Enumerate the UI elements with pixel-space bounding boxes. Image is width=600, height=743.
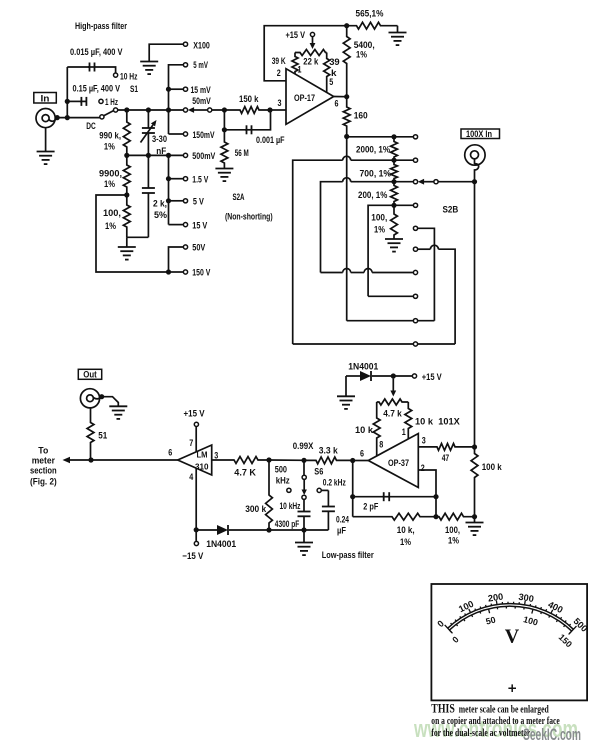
arrow wiper to 4.7k pot bbox=[392, 379, 394, 391]
svg-text:1%: 1% bbox=[104, 179, 115, 190]
wire S2B row8 bbox=[368, 295, 413, 297]
op-amp U2 LM310 bbox=[178, 445, 212, 475]
svg-text:5 V: 5 V bbox=[193, 197, 205, 208]
switch S2B contact 7 bbox=[413, 270, 417, 274]
svg-text:990 k,: 990 k, bbox=[99, 131, 121, 142]
meter outer scale ticks bbox=[445, 601, 577, 634]
svg-text:S1: S1 bbox=[130, 84, 138, 95]
svg-text:100,: 100, bbox=[445, 525, 460, 536]
meter arc inner bbox=[449, 606, 571, 631]
svg-text:10 k: 10 k bbox=[415, 417, 434, 428]
wire 150mV stub bbox=[169, 133, 184, 135]
svg-text:1%: 1% bbox=[356, 49, 367, 60]
meter arc outer bbox=[448, 604, 574, 630]
svg-text:6: 6 bbox=[335, 98, 339, 109]
svg-text:0.015 µF, 400 V: 0.015 µF, 400 V bbox=[70, 47, 123, 58]
meter inner scale ticks bbox=[449, 606, 571, 634]
svg-text:1N4001: 1N4001 bbox=[206, 539, 237, 550]
svg-text:2: 2 bbox=[277, 68, 281, 79]
wire S2B main vertical bbox=[346, 137, 348, 321]
power -15V LM310 bbox=[195, 468, 197, 541]
switch S2A contact 5 V bbox=[183, 199, 187, 203]
svg-text:100,: 100, bbox=[371, 213, 387, 224]
switch S2B contact 1 bbox=[413, 135, 417, 139]
switch S2B contact 4 bbox=[413, 203, 417, 207]
svg-text:0.24: 0.24 bbox=[336, 514, 349, 525]
wire 50V/150V tap loop bbox=[96, 195, 169, 272]
svg-text:1N4001: 1N4001 bbox=[348, 361, 379, 372]
wire 5mV stub bbox=[169, 65, 184, 134]
svg-text:6: 6 bbox=[360, 449, 364, 460]
wire S2B row3 wiper left bbox=[351, 181, 414, 183]
wire main bus S1 to S2A wiper bbox=[118, 109, 184, 111]
svg-text:1 Hz: 1 Hz bbox=[105, 97, 118, 108]
svg-text:OP-37: OP-37 bbox=[388, 458, 409, 469]
svg-text:1%: 1% bbox=[400, 537, 411, 548]
svg-text:+15 V: +15 V bbox=[286, 30, 306, 41]
switch S2A contact 15 V bbox=[183, 223, 187, 227]
wire S2B row10 bbox=[293, 343, 414, 345]
switch S2A pole bbox=[208, 108, 212, 112]
svg-text:S2B: S2B bbox=[443, 205, 459, 216]
ground by Out BNC bbox=[109, 405, 127, 407]
wire divider bottom row bbox=[127, 236, 149, 238]
wire 100X In vertical to OP-37 bbox=[474, 182, 476, 447]
ground before 1N4001 bbox=[345, 376, 347, 396]
svg-text:3: 3 bbox=[422, 435, 426, 446]
meter scale box bbox=[431, 584, 587, 700]
svg-text:300 k: 300 k bbox=[245, 504, 267, 515]
switch S2B contact 5 bbox=[413, 226, 417, 230]
switch S2A contact 15 mV bbox=[183, 87, 187, 91]
svg-text:51: 51 bbox=[98, 430, 108, 441]
ground below In BNC bbox=[37, 151, 55, 153]
svg-text:OP-17: OP-17 bbox=[294, 93, 315, 104]
svg-text:section: section bbox=[30, 465, 57, 476]
svg-text:Out: Out bbox=[83, 370, 97, 381]
svg-text:8: 8 bbox=[379, 440, 383, 451]
power +15V OP-37 bbox=[412, 374, 416, 378]
svg-text:700, 1%: 700, 1% bbox=[360, 168, 392, 179]
connector J3 Out BNC bbox=[80, 389, 99, 408]
switch S1 wiper arm bbox=[104, 111, 114, 116]
wire 56M tap bbox=[223, 110, 225, 130]
svg-text:565,1%: 565,1% bbox=[356, 8, 384, 19]
wire S2B row1 bbox=[347, 136, 414, 138]
svg-text:4: 4 bbox=[189, 472, 194, 483]
svg-text:S2A: S2A bbox=[233, 192, 245, 203]
svg-text:0.2 kHz: 0.2 kHz bbox=[323, 478, 346, 489]
wire S2B pole to 100X junction bbox=[438, 181, 474, 183]
svg-text:7: 7 bbox=[189, 438, 193, 449]
svg-text:56 M: 56 M bbox=[235, 148, 249, 159]
wire pin2 node to feedback row bbox=[435, 497, 437, 517]
svg-text:SeekIC.com: SeekIC.com bbox=[523, 725, 581, 743]
svg-text:4.7 k: 4.7 k bbox=[383, 409, 402, 420]
switch S2B contact 2 bbox=[413, 158, 417, 162]
svg-text:160: 160 bbox=[354, 111, 368, 122]
svg-text:meter scale can be enlarged: meter scale can be enlarged bbox=[459, 705, 549, 716]
switch S1 contact 1 Hz bbox=[99, 99, 103, 103]
svg-text:High-pass filter: High-pass filter bbox=[75, 21, 127, 32]
svg-text:In: In bbox=[41, 93, 50, 104]
svg-text:100X In: 100X In bbox=[466, 129, 492, 140]
switch S2A contact 50V bbox=[183, 245, 187, 249]
svg-text:DC: DC bbox=[86, 121, 96, 132]
svg-text:+15 V: +15 V bbox=[422, 372, 443, 383]
capacitor 2 pF bbox=[353, 496, 384, 498]
capacitor 2k 5% bbox=[147, 155, 149, 188]
svg-text:10 k: 10 k bbox=[355, 425, 374, 436]
svg-text:3: 3 bbox=[278, 98, 282, 109]
arrow wiper to 22k pot bbox=[312, 37, 314, 43]
svg-text:1: 1 bbox=[402, 427, 407, 438]
svg-text:+15 V: +15 V bbox=[184, 409, 206, 420]
resistor 47 bbox=[418, 444, 474, 451]
wire cap to 10Hz contact bbox=[95, 67, 116, 73]
OP-17 output pin 6 bbox=[334, 96, 347, 98]
svg-text:(Non-shorting): (Non-shorting) bbox=[225, 212, 273, 223]
ground after 565 bbox=[397, 26, 399, 33]
wire feedback OP-17 pin2 loop bbox=[264, 26, 347, 81]
svg-text:5 mV: 5 mV bbox=[193, 60, 208, 71]
switch S1 contact 10 Hz bbox=[114, 73, 118, 77]
ground below 56M bbox=[215, 168, 233, 170]
connector J1 In BNC bbox=[36, 109, 55, 128]
svg-text:THIS: THIS bbox=[431, 702, 455, 716]
svg-text:10 k,: 10 k, bbox=[397, 525, 415, 536]
svg-text:50V: 50V bbox=[192, 243, 206, 254]
svg-text:1: 1 bbox=[298, 65, 303, 76]
wire input vertical to caps bbox=[66, 67, 68, 118]
switch S2A contact 150mV bbox=[183, 132, 187, 136]
ground below 100k bbox=[474, 517, 476, 523]
op-amp U3 OP-37 bbox=[368, 434, 418, 488]
wire 150k to OP-17 pin 3 bbox=[270, 109, 286, 111]
svg-text:200, 1%: 200, 1% bbox=[358, 190, 388, 201]
wire S2A lower tap bus bbox=[168, 155, 170, 224]
svg-text:4300 pF: 4300 pF bbox=[275, 519, 300, 530]
switch S2B contact 8 bbox=[413, 294, 417, 298]
svg-text:for the dual-scale ac voltmete: for the dual-scale ac voltmeter bbox=[431, 728, 530, 739]
wire to 0.99X node bbox=[269, 459, 304, 461]
svg-text:2 pF: 2 pF bbox=[363, 502, 378, 513]
svg-text:150 V: 150 V bbox=[192, 268, 210, 279]
svg-text:1%: 1% bbox=[105, 221, 116, 232]
wire S2B row7 bbox=[321, 272, 343, 274]
switch S2A contact 500mV bbox=[183, 153, 187, 157]
svg-text:1%: 1% bbox=[374, 225, 385, 236]
switch S1 contact DC bbox=[100, 115, 104, 119]
op-amp U1 OP-17 bbox=[286, 69, 334, 125]
connector J2 100X In BNC bbox=[465, 145, 485, 165]
svg-text:0.15 µF, 400 V: 0.15 µF, 400 V bbox=[73, 83, 121, 94]
wire In BNC to ground stem bbox=[45, 128, 47, 152]
label 100X In box bbox=[461, 129, 500, 139]
svg-text:4.7 K: 4.7 K bbox=[234, 467, 256, 478]
switch S2A contact 5 mV bbox=[183, 63, 187, 67]
svg-text:−15 V: −15 V bbox=[182, 551, 204, 562]
svg-text:39 K: 39 K bbox=[272, 56, 286, 67]
svg-text:101X: 101X bbox=[438, 417, 460, 428]
svg-text:1.5 V: 1.5 V bbox=[192, 174, 208, 185]
wire S2B row6 to row10 link bbox=[418, 248, 431, 250]
switch S2A contact 150 V bbox=[183, 270, 187, 274]
svg-text:150 k: 150 k bbox=[239, 94, 259, 105]
svg-text:310: 310 bbox=[195, 462, 209, 472]
svg-text:kHz: kHz bbox=[276, 476, 290, 487]
svg-text:5: 5 bbox=[329, 77, 334, 88]
ground on X100 line bbox=[140, 61, 158, 63]
wire divider row y155 bbox=[127, 154, 184, 156]
arrow to meter section bbox=[70, 459, 178, 461]
svg-text:100,: 100, bbox=[103, 208, 121, 219]
svg-text:3.3 k: 3.3 k bbox=[319, 446, 339, 457]
svg-text:10 kHz: 10 kHz bbox=[280, 501, 301, 512]
switch S2A contact X100 bbox=[183, 42, 187, 46]
svg-text:X100: X100 bbox=[193, 41, 210, 52]
wire input node bbox=[57, 117, 100, 119]
ground below S2B 100 bbox=[393, 237, 395, 240]
ground low-pass bbox=[303, 530, 305, 543]
svg-text:2000, 1%: 2000, 1% bbox=[356, 145, 390, 156]
svg-text:150mV: 150mV bbox=[193, 130, 215, 141]
svg-text:1%: 1% bbox=[104, 142, 115, 153]
wire 15mV stub bbox=[169, 88, 184, 90]
svg-text:3-30: 3-30 bbox=[152, 134, 167, 145]
svg-text:V: V bbox=[505, 626, 520, 648]
svg-text:39: 39 bbox=[329, 57, 340, 68]
switch S2B contact 6 bbox=[413, 247, 417, 251]
svg-text:µF: µF bbox=[337, 526, 346, 537]
switch S1 pole bbox=[114, 108, 118, 112]
svg-text:15 V: 15 V bbox=[192, 220, 208, 231]
label Out box bbox=[78, 369, 101, 379]
svg-text:Low-pass filter: Low-pass filter bbox=[322, 550, 374, 561]
wire Out BNC to ground bbox=[102, 397, 119, 407]
svg-text:15 mV: 15 mV bbox=[191, 85, 212, 96]
svg-text:100 k: 100 k bbox=[482, 462, 503, 473]
ground below divider bbox=[126, 237, 128, 247]
wire S2B row9 bbox=[347, 320, 414, 322]
svg-text:1%: 1% bbox=[448, 536, 459, 547]
svg-text:50mV: 50mV bbox=[192, 96, 211, 107]
wire S2A pole to 150k bbox=[212, 109, 238, 111]
meter plus mark bbox=[508, 684, 516, 692]
capacitor 0.24 uF bbox=[321, 489, 328, 491]
svg-text:22 k: 22 k bbox=[303, 57, 319, 68]
svg-text:0.001 µF: 0.001 µF bbox=[256, 135, 285, 146]
svg-text:5%: 5% bbox=[154, 210, 168, 221]
switch S2B contact 9 bbox=[413, 319, 417, 323]
label In box bbox=[34, 93, 57, 104]
wire S2B row5 to row9 link bbox=[418, 228, 435, 320]
capacitor 0.001 uF bbox=[224, 129, 246, 131]
svg-text:10 Hz: 10 Hz bbox=[120, 72, 138, 83]
svg-text:500mV: 500mV bbox=[192, 151, 215, 162]
wire S2B row4 bbox=[368, 205, 413, 296]
svg-text:(Fig. 2): (Fig. 2) bbox=[30, 477, 57, 488]
svg-text:6: 6 bbox=[168, 448, 172, 459]
svg-text:2 k,: 2 k, bbox=[153, 199, 167, 210]
svg-text:S6: S6 bbox=[314, 466, 323, 477]
switch S2A contact 1.5 V bbox=[183, 177, 187, 181]
svg-text:500: 500 bbox=[275, 464, 287, 475]
trimmer capacitor 3-30 nF bbox=[147, 110, 149, 128]
wire apex node down bbox=[352, 461, 354, 517]
wire S2B row2 bbox=[351, 159, 414, 161]
switch S2B pole bbox=[434, 180, 438, 184]
svg-text:47: 47 bbox=[442, 453, 450, 464]
wire X100 to ground bbox=[149, 44, 183, 61]
switch S2B contact 10 bbox=[413, 342, 417, 346]
svg-text:2: 2 bbox=[421, 463, 425, 474]
svg-text:LM: LM bbox=[197, 450, 208, 460]
svg-text:0.99X: 0.99X bbox=[293, 441, 314, 452]
svg-text:9900,: 9900, bbox=[99, 169, 122, 180]
switch S2B contact 3 wiper bbox=[413, 180, 417, 184]
